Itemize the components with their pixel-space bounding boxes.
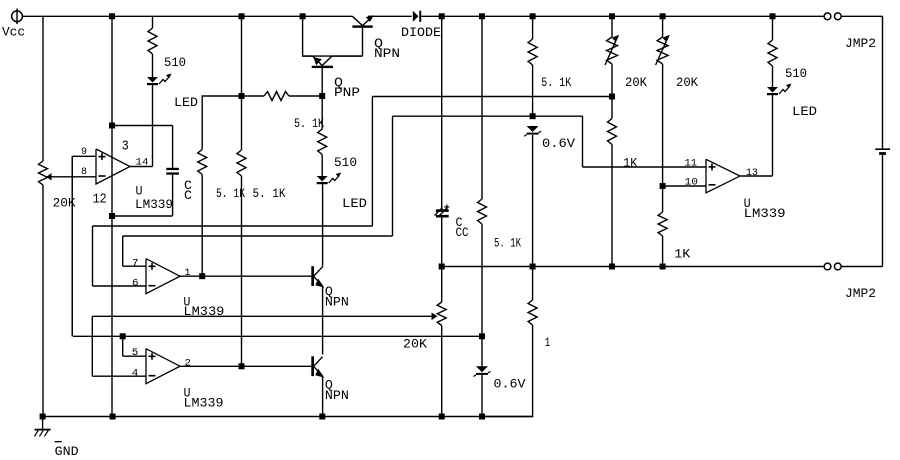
wire Q2 collector link (332, 55, 363, 57)
wire LED c to op4 output (772, 94, 774, 176)
wire op4 pin10 input (663, 185, 706, 187)
capacitor CC trimmer (435, 204, 469, 240)
wire rail to resistor 510 first (152, 16, 154, 28)
Vcc power symbol (2, 9, 25, 40)
svg-text:2: 2 (185, 359, 192, 370)
node junction top rail x241 (239, 13, 245, 19)
svg-text:Vcc: Vcc (2, 26, 25, 40)
jumper JMP2 bottom (824, 263, 876, 301)
wire net C horizontal y316 (92, 315, 433, 317)
wire x112 down to ground (111, 216, 113, 417)
svg-text:4: 4 (132, 369, 139, 380)
resistor 5.1K d (478, 199, 522, 251)
label pin 6 (132, 278, 139, 289)
svg-text:5. 1K: 5. 1K (294, 117, 324, 131)
node junction x482 y336 (479, 333, 485, 339)
svg-text:CC: CC (456, 226, 469, 240)
node junction x202 y276 (199, 273, 205, 279)
wire op2 output to Q3 base (180, 275, 312, 277)
label pin 3 (122, 139, 129, 155)
svg-text:PNP: PNP (334, 86, 360, 100)
wire pot a to junction (611, 64, 613, 97)
wire pot b to junction (662, 64, 664, 186)
resistor 5.1K b (237, 150, 286, 201)
label pin 13 (746, 168, 758, 179)
node junction x532 y116 (530, 113, 536, 119)
label U3 refdes (184, 387, 224, 411)
wire x441 rail down to cap (441, 16, 443, 209)
wire V+ branch x112 (111, 16, 113, 216)
wire Q2 base drop (321, 68, 323, 96)
node junction top rail x772 (770, 13, 776, 19)
wire net A drop x92 (92, 226, 94, 286)
LED second (317, 173, 367, 212)
wire net D riser x73 (71, 156, 73, 336)
label U4 refdes (744, 197, 786, 221)
node junction x322 y96 (319, 93, 325, 99)
node junction x612 y266 (609, 264, 615, 270)
wire Q1 base drop (362, 28, 364, 56)
svg-text:JMP2: JMP2 (845, 37, 876, 51)
svg-text:GND: GND (55, 445, 79, 459)
wire rail to resistor 510 c (772, 16, 774, 40)
wire 5.1K d to junction (481, 224, 483, 336)
op-amp U4 LM339 (706, 159, 740, 193)
LED first (147, 74, 198, 111)
wire Q1 base to junction (303, 16, 363, 56)
svg-text:LM339: LM339 (744, 207, 786, 221)
wire 1K b to bus (662, 236, 664, 267)
wire pin 9 input (72, 155, 96, 157)
svg-text:LED: LED (792, 105, 817, 119)
label U1 refdes (135, 185, 173, 213)
node junction gnd x441 (439, 414, 445, 420)
svg-text:0.6V: 0.6V (494, 378, 526, 392)
node junction x241 y96 (239, 93, 245, 99)
node junction top rail x482 (479, 13, 485, 19)
wire Q4 emitter to ground (322, 376, 324, 417)
diode 0.6V b (474, 366, 526, 391)
wire ground bus (43, 416, 533, 418)
wire net B drop x122 to pin 7 (123, 236, 146, 266)
resistor 1 ohm (528, 300, 550, 350)
wire net B drop x582 (582, 116, 584, 167)
wire resistor c left (242, 95, 265, 97)
wire net A riser x372 (371, 97, 373, 227)
wire 5.1K b down (241, 176, 243, 366)
svg-text:1K: 1K (674, 248, 690, 262)
svg-text:NPN: NPN (325, 389, 349, 403)
svg-text:1: 1 (185, 268, 191, 279)
battery (875, 149, 890, 155)
wire output bus (442, 266, 825, 268)
wire 5.1K e to junction (532, 65, 534, 116)
label pin 5 (132, 348, 139, 359)
node junction x112 y216 (109, 213, 115, 219)
label pin 1 (185, 268, 191, 279)
ground (34, 417, 78, 460)
svg-text:20K: 20K (676, 76, 698, 90)
wire resistor to LED b (321, 155, 323, 177)
resistor 510 first (148, 28, 186, 70)
resistor 5.1K e (528, 39, 572, 90)
svg-text:13: 13 (746, 168, 758, 179)
wire top rail to JMP2 (421, 15, 824, 17)
svg-text:5. 1K: 5. 1K (253, 187, 286, 201)
wire x482 rail down (481, 16, 483, 199)
wire op4 output (740, 175, 773, 177)
wire net A horizontal y226 (93, 225, 373, 227)
wire net D horizontal y336 (73, 335, 482, 337)
wire junction to 1K b (662, 186, 664, 212)
resistor 510 c (768, 40, 807, 81)
wire JMP2 top to battery (841, 16, 882, 148)
svg-text:JMP2: JMP2 (845, 287, 876, 301)
svg-text:1: 1 (545, 336, 551, 350)
node junction gnd x43 (40, 414, 46, 420)
wire x441 bus to pot (441, 267, 443, 303)
wire Vcc top rail (22, 15, 352, 17)
node junction x662 y186 (660, 183, 666, 189)
node junction x662 y266 (660, 264, 666, 270)
transistor Q3 NPN (311, 266, 349, 309)
wire LED to op-amp output (152, 84, 154, 167)
svg-text:U: U (136, 185, 143, 199)
node junction gnd x112 (110, 414, 116, 420)
wire diode b to ground (481, 375, 483, 417)
wire Q2 emitter link (303, 55, 313, 57)
node junction top rail x662 (660, 13, 666, 19)
svg-text:5. 1K: 5. 1K (494, 237, 521, 251)
svg-text:8: 8 (81, 167, 87, 178)
wiper arrowhead pot 20K right (432, 313, 438, 321)
capacitor C (166, 168, 192, 203)
wire LED b to Q3 collector (322, 183, 324, 267)
node junction top rail x302 (300, 13, 306, 19)
svg-text:11: 11 (685, 159, 698, 170)
label pin 8 (81, 167, 87, 178)
wire diode a to bus (532, 135, 534, 267)
svg-text:LED: LED (342, 197, 367, 211)
wire net C drop x92 (91, 316, 93, 376)
node junction gnd x482 (479, 414, 485, 420)
node junction top rail x441 (439, 13, 445, 19)
wire cap bottom link (112, 175, 173, 216)
svg-text:3: 3 (122, 139, 129, 155)
svg-text:7: 7 (132, 259, 139, 270)
wire x532 rail down (532, 16, 534, 39)
wire junction to 1K a (611, 97, 613, 119)
wire net B horizontal y167 to pin 11 (583, 166, 707, 168)
label pin 12 (93, 192, 107, 208)
svg-text:20K: 20K (625, 76, 647, 90)
node junction top rail x532 (530, 13, 536, 19)
wire x662 rail down (662, 16, 664, 37)
wire pot wiper to op-amp pin 8 (52, 176, 97, 178)
svg-text:LM339: LM339 (184, 397, 224, 411)
op-amp U2 LM339 (146, 259, 180, 294)
potentiometer 20K left (39, 161, 77, 211)
label pin 4 (132, 369, 139, 380)
wire Q3 emitter down (322, 286, 324, 355)
svg-text:0.6V: 0.6V (542, 137, 575, 151)
node junction x112 y125 (109, 123, 115, 129)
wire pot x441 to ground (441, 326, 443, 417)
resistor 510 b (318, 129, 357, 170)
wire op1 output (130, 166, 153, 168)
wire corner x202 top (202, 96, 241, 150)
potentiometer 20K b (656, 35, 699, 90)
potentiometer 20K a (605, 35, 647, 90)
wire net D drop to pin 5 (123, 336, 146, 356)
wire net B horizontal y236 (123, 235, 393, 237)
node junction top rail x612 (609, 13, 615, 19)
label pin 2 (185, 359, 192, 370)
resistor 5.1K c horizontal (264, 92, 324, 132)
wire battery to JMP2 bottom (841, 155, 882, 267)
transistor Q1 NPN (352, 15, 400, 61)
wire x612 rail down (611, 16, 613, 37)
svg-text:NPN: NPN (374, 47, 400, 61)
transistor Q4 NPN (311, 356, 349, 403)
svg-text:20K: 20K (403, 338, 427, 352)
label pin 9 (81, 147, 87, 158)
svg-text:510: 510 (334, 156, 357, 170)
wire cap CC to bus (441, 218, 443, 267)
wire op3 pin4 input (92, 375, 146, 377)
label pin 11 (685, 159, 698, 170)
resistor 5.1K a (198, 150, 246, 202)
node junction gnd x322 (319, 414, 325, 420)
svg-text:6: 6 (132, 278, 139, 289)
label U2 refdes (183, 296, 224, 320)
op-amp U1 LM339 (96, 149, 130, 184)
svg-text:510: 510 (164, 56, 186, 70)
svg-text:1K: 1K (623, 157, 637, 171)
wire op2 pin6 input (93, 285, 147, 287)
node junction x532 y266 (530, 264, 536, 270)
wire top rail right segment (368, 15, 412, 17)
svg-text:LED: LED (174, 96, 198, 110)
wire resistor to LED first (152, 54, 154, 77)
wire net B riser x392 (392, 116, 394, 236)
wire Q2 base to resistor (321, 96, 323, 129)
transistor Q2 PNP (312, 56, 360, 100)
label pin 10 (685, 177, 699, 188)
svg-text:510: 510 (785, 67, 807, 81)
wire cap top link (112, 126, 173, 169)
potentiometer 20K right (403, 302, 446, 352)
svg-text:DIODE: DIODE (401, 26, 441, 40)
wire rail branch x241 (241, 16, 243, 150)
LED third (767, 84, 817, 120)
wire op3 output to Q4 base (180, 365, 312, 367)
svg-text:LM339: LM339 (135, 198, 173, 212)
label pin 14 (136, 158, 149, 169)
svg-text:C: C (184, 189, 192, 203)
resistor 1K a (608, 119, 638, 171)
wire 5.1K a to op2 output (201, 175, 203, 277)
wire resistor c right (289, 95, 322, 97)
svg-text:10: 10 (685, 177, 699, 188)
wire 1K a to bus (611, 145, 613, 267)
node junction x612 y96 (609, 94, 615, 100)
node junction top rail x112 (109, 13, 115, 19)
svg-text:12: 12 (93, 192, 107, 208)
wire Vcc branch down x43 (42, 16, 44, 161)
diode 0.6V a (524, 126, 575, 151)
diode D1 (401, 11, 441, 40)
wire resistor c to LED (772, 66, 774, 87)
wire net A horizontal y96 (372, 96, 612, 98)
wire pin9 riser x72 (71, 156, 73, 336)
op-amp U3 LM339 (146, 349, 180, 384)
label pin 7 (132, 259, 139, 270)
node junction x441 y266 (439, 264, 445, 270)
node junction x122 y336 (120, 333, 126, 339)
wire resistor 1 to ground corner (482, 325, 533, 417)
svg-text:5: 5 (132, 348, 139, 359)
svg-text:NPN: NPN (325, 296, 349, 310)
wire bus to resistor 1 (532, 267, 534, 301)
wire pot bottom to ground (42, 185, 44, 417)
wire x482 junction to diode (481, 336, 483, 366)
node junction x241 y366 (239, 363, 245, 369)
resistor 1K b (658, 212, 691, 262)
wire net B horizontal y116 (393, 115, 583, 117)
jumper JMP2 top (824, 13, 876, 51)
svg-text:5. 1K: 5. 1K (541, 76, 571, 90)
